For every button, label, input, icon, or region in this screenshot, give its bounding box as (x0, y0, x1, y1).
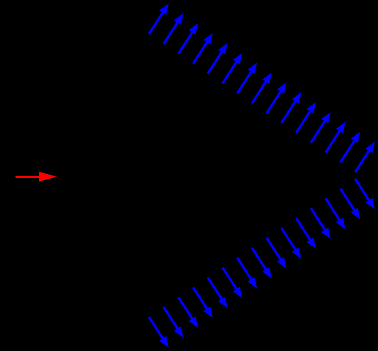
wavefront normal arrow B14 (bottom Mach line) (340, 189, 360, 220)
wavefront normal arrow T14 (top Mach line) (340, 132, 360, 163)
wavefront normal arrow B10 (bottom Mach line) (282, 228, 302, 259)
wavefront normal arrow T6 (top Mach line) (223, 53, 243, 84)
wavefront normal arrow B1 (bottom Mach line) (149, 317, 169, 348)
wavefront normal arrow B8 (bottom Mach line) (252, 248, 272, 279)
wavefront normal arrow T8 (top Mach line) (252, 73, 272, 104)
wavefront normal arrow B9 (bottom Mach line) (267, 238, 287, 269)
wavefront normal arrow B15 (bottom Mach line) (355, 179, 375, 210)
wavefront normal arrow T12 (top Mach line) (311, 112, 331, 143)
wavefront normal arrow B11 (bottom Mach line) (296, 218, 316, 249)
wavefront normal arrow T7 (top Mach line) (237, 63, 257, 94)
wavefront normal arrow B7 (bottom Mach line) (237, 258, 257, 289)
wavefront normal arrow B12 (bottom Mach line) (311, 208, 331, 239)
wavefront normal arrow T1 (top Mach line) (149, 3, 169, 34)
wavefront normal arrow B13 (bottom Mach line) (326, 199, 346, 230)
wavefront normal arrow B5 (bottom Mach line) (208, 277, 228, 308)
wavefront normal arrow T11 (top Mach line) (296, 102, 316, 133)
wavefront normal arrow B6 (bottom Mach line) (223, 268, 243, 299)
wavefront normal arrow T5 (top Mach line) (208, 43, 228, 74)
wavefront normal arrow B2 (bottom Mach line) (164, 307, 184, 338)
wavefront normal arrow T15 (top Mach line) (355, 142, 375, 173)
wavefront normal arrow B4 (bottom Mach line) (193, 287, 213, 318)
wavefront normal arrow T13 (top Mach line) (326, 122, 346, 153)
wavefront normal arrow T9 (top Mach line) (267, 82, 287, 113)
wavefront normal arrow T3 (top Mach line) (178, 23, 198, 54)
velocity vector v (red arrow, source moving right) (15, 172, 57, 182)
wavefront normal arrow T4 (top Mach line) (193, 33, 213, 64)
wavefront normal arrow T10 (top Mach line) (282, 92, 302, 123)
wavefront normal arrow B3 (bottom Mach line) (178, 297, 198, 328)
wavefront normal arrow T2 (top Mach line) (164, 13, 184, 44)
